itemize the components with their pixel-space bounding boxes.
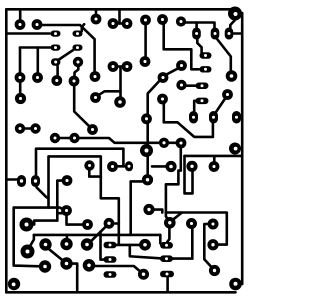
wire oval(35.5,181) up and right, outer line y148.7 <box>36 149 123 175</box>
vertical lozenge (196.5,33.5) <box>192 28 201 40</box>
lozenge (202,100.8) <box>196 98 209 105</box>
pad (67,180.5) <box>62 175 73 186</box>
vertical oval (193.5,117.2) <box>189 111 198 124</box>
wire pad(162.5,99) to oval(213.5,117.2) <box>164 104 213 137</box>
wire stub to lozenge(196.5,33.5) <box>195 23 198 30</box>
wire left column down to pad(45,266.5) <box>14 208 40 267</box>
wire inner snake y156.4 <box>49 156 140 245</box>
big pad (45,266.5) <box>39 260 51 272</box>
wire corner down to pad(192,166.3) <box>185 156 193 194</box>
pad (78,62) <box>73 57 83 67</box>
wire pad(181.5,85) to lozenge(202,85.7) <box>187 84 196 87</box>
wire x192.3 up to pad(191.5,223.5) <box>191 229 194 258</box>
pad (235,148.5) <box>229 143 241 155</box>
wire lozenge(229,33.5) to corner pad <box>230 20 235 30</box>
wire pad(213,224) elbow diag to pad(214.5,270.5) <box>204 224 212 268</box>
wire diag oval(35.5,181) to inner vertical <box>37 187 49 198</box>
corner pad top-right <box>228 7 242 21</box>
pad (87.5,224.5) <box>82 219 93 230</box>
pad (56.8,80.5) <box>51 75 62 86</box>
wire long y142.8 line to pad(181,143) <box>79 138 177 143</box>
wire border to lozenge(55.5,33.5) <box>7 32 50 35</box>
pad (89.5,165.5) <box>84 160 94 170</box>
vertical oval (129,166.3) <box>125 161 133 171</box>
pad (147.5,179.75) <box>142 174 153 185</box>
wire pad(169.8,222.75) down to lozenge(166.5,245.3) <box>167 228 169 242</box>
pad (143.5,274.25) <box>138 269 149 280</box>
wire x20 down to pad(20,77.5) <box>19 48 22 74</box>
wire diag oval(213.5,117) to pad(227.5,94.5) <box>216 96 227 112</box>
wire lozenge(202,100.8) to oval(193.5,117.2) <box>194 101 196 113</box>
wire pad(37,24.5) right diag to pad(95,76.5) <box>41 25 95 71</box>
lozenge (205.5,55.5) <box>200 52 212 58</box>
wire big pad(27.5,251.5) diag up <box>30 235 34 247</box>
wire diag pad(163,77.5) to pad(181.5,65.5) <box>167 69 178 75</box>
wire pad(149,209.5) to box line <box>154 210 162 213</box>
big pad (66.5,263.5) <box>60 257 72 269</box>
wire pad(78,62) hook to pad(74,81) <box>75 67 79 78</box>
wire pad(147.5,179.75) elbow to y234.9 <box>131 181 143 235</box>
lozenge (166.5,245.3) <box>160 242 173 249</box>
wire horn pad(89.5,165.5) down to y199 <box>89 171 101 177</box>
wire pad(109,223.3) right to x118.8 vertical <box>113 222 119 225</box>
wire pad(20,77.5) to pad(20.5,98.5) <box>19 82 22 94</box>
vertical lozenge (229,33.5) <box>225 28 234 40</box>
border bottom <box>6 291 235 294</box>
pad (192,166.3) <box>186 161 197 172</box>
pad (95,76.5) <box>90 71 101 82</box>
pad (20.5,98.5) <box>15 93 26 104</box>
big pad (27.5,251.5) <box>21 245 35 259</box>
wire y234.9 line <box>34 234 160 237</box>
pad (169.8,222.75) <box>164 217 176 229</box>
pad (181.5,65.5) <box>176 60 187 71</box>
oval pad (55.5,62) <box>51 58 60 66</box>
pad (66.5,210.5) <box>61 205 72 216</box>
wire stub to pad(214,166.5) <box>213 157 216 163</box>
lozenge (110,245) <box>104 242 117 249</box>
vertical oval (35.5,181) <box>31 175 40 187</box>
wire lozenge row2 right to x192.3 <box>173 257 193 260</box>
wire pad(66.5,263.5) right down to border <box>72 264 78 290</box>
wire pad(162.5,19.5) to lozenge(205.5,69.3) <box>164 24 199 69</box>
wire y47.5 line <box>20 46 50 49</box>
pad (227.5,94.5) <box>222 89 233 100</box>
wire stub x119.5 <box>118 10 121 24</box>
pad (145.5,20) <box>140 15 151 26</box>
pad (113,23.5) <box>108 18 119 29</box>
pad (74.5,138) <box>69 133 79 143</box>
pad (87,244.5) <box>81 238 93 250</box>
wire T right to oval(129,166.3) <box>123 165 125 168</box>
pad (164,142.8) <box>159 138 169 148</box>
big pad (45.5,244.5) <box>39 238 51 250</box>
wire diag pad(109,223.3) to pad(87,244.5) <box>90 227 106 243</box>
pad (145,61.5) <box>140 56 151 67</box>
pad (92.5,129.5) <box>87 124 98 135</box>
pad (127,23.5) <box>122 18 133 29</box>
wire x120.5 down to pad(120,102) <box>119 67 122 98</box>
wire T down right to lozenge(166.5,258.7) <box>130 245 160 258</box>
wire lozenge(229,33.5) to right border <box>233 32 242 35</box>
wire pad(89,265.3) line y266.3 diag to pad(143.5,274.25) <box>94 266 140 271</box>
pad (171,166.5) <box>165 161 176 172</box>
wire border to oval(21.5,181) <box>6 178 17 181</box>
wire branch down to pad(66.5,244) <box>66 235 69 240</box>
wire hook lozenge(196.5,33.5) to lozenge(205.5,55.5) <box>197 37 204 56</box>
lozenge (202,85.7) <box>196 83 209 90</box>
pad (214,166.5) <box>209 161 220 172</box>
lozenge (55.5,33.5) <box>51 31 61 37</box>
lozenge (55.5,47.5) <box>51 45 61 51</box>
wire pad(181,21.5) to lozenge(215,33.5) <box>186 23 215 30</box>
lozenge (166.5,258.7) <box>160 255 173 262</box>
pad (146.5,118.8) <box>141 113 152 124</box>
pad (74,81) <box>69 76 80 87</box>
vertical oval (236.5,117.2) <box>232 111 241 124</box>
pad (20,24.5) <box>15 19 26 30</box>
wire stub pad1 to border <box>19 10 22 20</box>
wire big pad to pad(147.5,179.75) <box>146 157 149 175</box>
wire y156 right line <box>185 155 243 158</box>
wire pad(145.5,20) to pad(145,61.5) <box>144 24 147 57</box>
wire box top y212.5 to pad(213,244.75) <box>166 213 227 245</box>
corner pad bottom-right <box>229 278 242 291</box>
vertical oval (21.5,181) <box>17 175 26 187</box>
wire T to pad(171,166.5) <box>152 165 166 168</box>
wire pad(20,128.5) pair link <box>20 127 36 130</box>
wire corner down to lozenge(166.5,245.3) <box>160 235 162 245</box>
pad (145,244.75) <box>139 239 151 251</box>
wire oval(236.5,117) to border <box>237 116 243 119</box>
wire diag pad(163,77.5) to pad(146.5,118.8) <box>148 81 160 114</box>
lozenge (110,259.5) <box>104 256 117 263</box>
wire pair link y23.5 <box>113 22 127 25</box>
pad (113,66.5) <box>108 61 119 72</box>
pad (181,21.5) <box>176 16 186 26</box>
vertical lozenge (215,33.5) <box>211 28 220 40</box>
big pad (66.5,244) <box>60 238 72 250</box>
pad (127,66.5) <box>122 61 133 72</box>
lozenge (167,274) <box>160 271 174 278</box>
pad (181.5,85) <box>176 80 186 90</box>
wire pair link y138 <box>59 137 70 140</box>
wire pad(66.5,210.5) down, y224.7 line <box>67 216 85 225</box>
pad (191.5,223.5) <box>186 218 197 229</box>
wire T left to pad(112.5,166.5) <box>117 165 123 168</box>
pad (95.5,97.5) <box>90 92 101 103</box>
pad (37,24.5) <box>32 19 43 30</box>
pad (213,244.75) <box>207 239 218 250</box>
wire vert x100.5 to lozenge2 <box>101 232 105 260</box>
vertical oval (213.5,117.2) <box>209 111 218 124</box>
wire diag lozenge(77.5,47.5) to oval(55.5,62) <box>58 50 74 61</box>
pad (149,209.5) <box>143 204 154 215</box>
wire stub pad(96,19) to border <box>95 10 98 15</box>
pad (162.5,19.5) <box>157 14 168 25</box>
wire diag lozenge(215,33.5) to pad(231.5,76) <box>216 38 231 71</box>
pad (89,265.3) <box>83 259 96 272</box>
wire pad(67,180.5) left down S2 <box>57 181 63 214</box>
wire staircase pad(181,143) down to pad(169.8,222.75) <box>166 148 181 221</box>
wire pad(146.5,118.8) to big pad(146.5,150.5) <box>146 124 149 146</box>
wire stub lozenge(77.5,33.5) up to diagonal <box>82 24 84 31</box>
lozenge (77.5,33.5) <box>73 31 83 37</box>
big pad (26.5,224.5) <box>20 218 34 232</box>
wire pad(74,81) diag to pad(92.5,129.5) <box>74 86 92 130</box>
wire pair link y66.5 <box>113 65 127 68</box>
pad (181,143) <box>176 138 187 149</box>
wire lozenge(167,274) to border <box>166 278 169 292</box>
wire y207.6 to pad(66.5,210.5) <box>14 208 64 210</box>
border top <box>6 8 235 11</box>
pad (35.5,128.5) <box>30 123 40 133</box>
wire lozenge1 to junction <box>113 244 119 247</box>
pad (120,102) <box>114 96 126 108</box>
pad (55,138) <box>50 133 60 143</box>
wire x37.8 down to pad(37.5,77.5) <box>36 48 39 74</box>
lozenge (77.5,47.5) <box>73 45 83 51</box>
pad (163,77.5) <box>158 72 169 83</box>
pad (109,223.3) <box>104 218 115 229</box>
wire T to pad(95.5,97.5) <box>99 91 121 95</box>
pad (214.5,270.5) <box>209 265 220 276</box>
wire S2 to big pad(26.5,224.5) <box>31 213 57 224</box>
wire oval(55.5,62) to pad(56.8,80.5) <box>56 66 59 77</box>
pad (20,77.5) <box>15 72 26 83</box>
pad (112.5,166.5) <box>107 161 118 172</box>
pad (231.5,76) <box>226 70 238 82</box>
wire diag pad(45.5,244.5) to pad(66.5,263.5) <box>49 249 64 261</box>
pad (162.5,99) <box>157 94 168 105</box>
lozenge (205.5,69.3) <box>200 66 212 72</box>
lozenge (110,274.5) <box>104 271 117 278</box>
pad (20,128.5) <box>15 123 25 133</box>
big pad (146.5,150.5) <box>140 144 153 157</box>
border right <box>241 13 244 284</box>
pad (96,19) <box>91 14 102 25</box>
pad (37.5,77.5) <box>32 72 43 83</box>
border left <box>5 9 8 292</box>
wire diag pad(169.8,222.75) to box line <box>173 213 182 220</box>
pad (213,224) <box>208 219 219 230</box>
corner pad bottom-left <box>8 278 20 290</box>
